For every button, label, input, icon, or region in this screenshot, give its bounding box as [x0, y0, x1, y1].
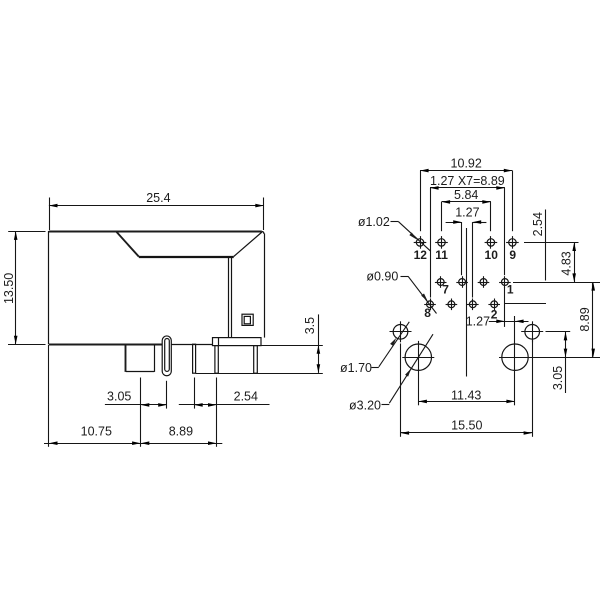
hole pin 2	[488, 299, 500, 311]
svg-text:15.50: 15.50	[451, 419, 482, 433]
dim 5.84	[442, 188, 491, 231]
shield leg right	[254, 346, 258, 374]
dim 13.50	[2, 231, 45, 344]
dim 1.27x7=8.89	[430, 174, 505, 298]
inner double vertical line	[228, 258, 230, 338]
svg-text:1.27 X7=8.89: 1.27 X7=8.89	[430, 174, 505, 188]
svg-text:25.4: 25.4	[146, 191, 170, 205]
hole pin 1	[499, 276, 511, 288]
hole pin 12	[414, 236, 427, 249]
center line	[466, 228, 468, 377]
hole 3.20 left	[402, 341, 434, 374]
hole pin 9	[506, 236, 519, 249]
body outline: top edge	[49, 232, 264, 235]
leader dia 1.02	[358, 215, 431, 251]
svg-text:3.05: 3.05	[551, 366, 565, 390]
hole 1.70 left	[390, 321, 412, 342]
svg-text:2.54: 2.54	[531, 212, 545, 236]
body face notch: horizontal double line	[139, 256, 234, 258]
dim 11.43	[418, 374, 515, 406]
svg-text:5.84: 5.84	[454, 188, 478, 202]
svg-text:ø3.20: ø3.20	[349, 398, 381, 412]
leader dia 1.70	[340, 322, 409, 375]
hole pin 3	[478, 276, 490, 288]
body outline: left edge	[48, 231, 50, 344]
svg-text:11.43: 11.43	[451, 388, 481, 402]
svg-text:8.89: 8.89	[169, 424, 193, 438]
hole pin 4	[467, 299, 479, 311]
body face notch: right diagonal	[234, 232, 262, 257]
shield leg left	[215, 346, 218, 374]
dim 4.83	[560, 242, 576, 282]
svg-text:10.75: 10.75	[81, 424, 112, 438]
latch (inner stadium)	[165, 338, 170, 371]
svg-text:13.50: 13.50	[2, 273, 16, 304]
dim 1.27 top	[446, 205, 487, 297]
latch (outer stadium)	[162, 336, 171, 376]
shield flange bar	[213, 338, 262, 346]
svg-text:2.54: 2.54	[234, 389, 258, 403]
dim 3.05 left	[105, 378, 167, 447]
body face notch: left diagonal	[116, 232, 138, 257]
svg-text:3.05: 3.05	[107, 389, 131, 403]
extension line seating plane	[261, 345, 323, 347]
dim 3.05 right	[546, 332, 571, 394]
svg-text:2: 2	[491, 307, 498, 321]
dim 3.5	[303, 314, 320, 373]
svg-text:3.5: 3.5	[303, 317, 317, 334]
body bottom edge	[49, 344, 162, 346]
svg-text:9: 9	[509, 248, 516, 262]
svg-text:1.27: 1.27	[455, 205, 479, 219]
pin tip line	[196, 373, 323, 375]
dim 2.54 right	[524, 210, 579, 281]
svg-text:ø1.02: ø1.02	[358, 215, 390, 229]
dim 1.27 lower	[466, 287, 546, 341]
hole pin 6	[446, 299, 458, 311]
svg-text:11: 11	[435, 248, 448, 262]
svg-text:ø0.90: ø0.90	[366, 270, 398, 284]
svg-text:10.92: 10.92	[451, 156, 482, 170]
svg-text:4.83: 4.83	[560, 251, 574, 275]
svg-text:10: 10	[485, 248, 499, 262]
leader dia 3.20	[349, 334, 433, 412]
hole pin 5	[456, 276, 468, 288]
dim 25.4	[49, 191, 264, 230]
bottom step	[125, 344, 127, 372]
hole pin 11	[435, 236, 448, 249]
svg-text:1: 1	[507, 283, 514, 297]
dim 10.75 / 8.89	[44, 345, 222, 447]
locating tab	[126, 371, 154, 373]
contact pin	[193, 344, 196, 373]
leader dia 0.90	[366, 270, 436, 314]
svg-text:7: 7	[442, 283, 449, 297]
hole pin 10	[485, 236, 498, 249]
hole 1.70 right	[521, 321, 543, 342]
small square detail	[242, 314, 253, 325]
hole 3.20 right	[499, 341, 531, 374]
dim 15.50	[401, 340, 533, 437]
hole pin 7	[435, 276, 447, 288]
svg-text:8: 8	[424, 306, 431, 320]
svg-text:12: 12	[414, 248, 428, 262]
dim 10.92	[420, 156, 513, 231]
svg-text:1.27: 1.27	[466, 315, 490, 329]
body outline: right edge	[264, 234, 266, 338]
dim 8.89 right	[513, 282, 600, 358]
hole pin 8	[424, 299, 436, 311]
svg-text:8.89: 8.89	[578, 307, 592, 331]
dim 2.54 left view	[179, 378, 270, 447]
svg-text:ø1.70: ø1.70	[340, 361, 372, 375]
